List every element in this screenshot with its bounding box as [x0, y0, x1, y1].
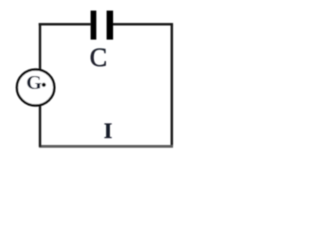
svg-text:G: G: [26, 72, 42, 94]
svg-text:C: C: [90, 43, 107, 72]
svg-text:I: I: [104, 118, 113, 143]
